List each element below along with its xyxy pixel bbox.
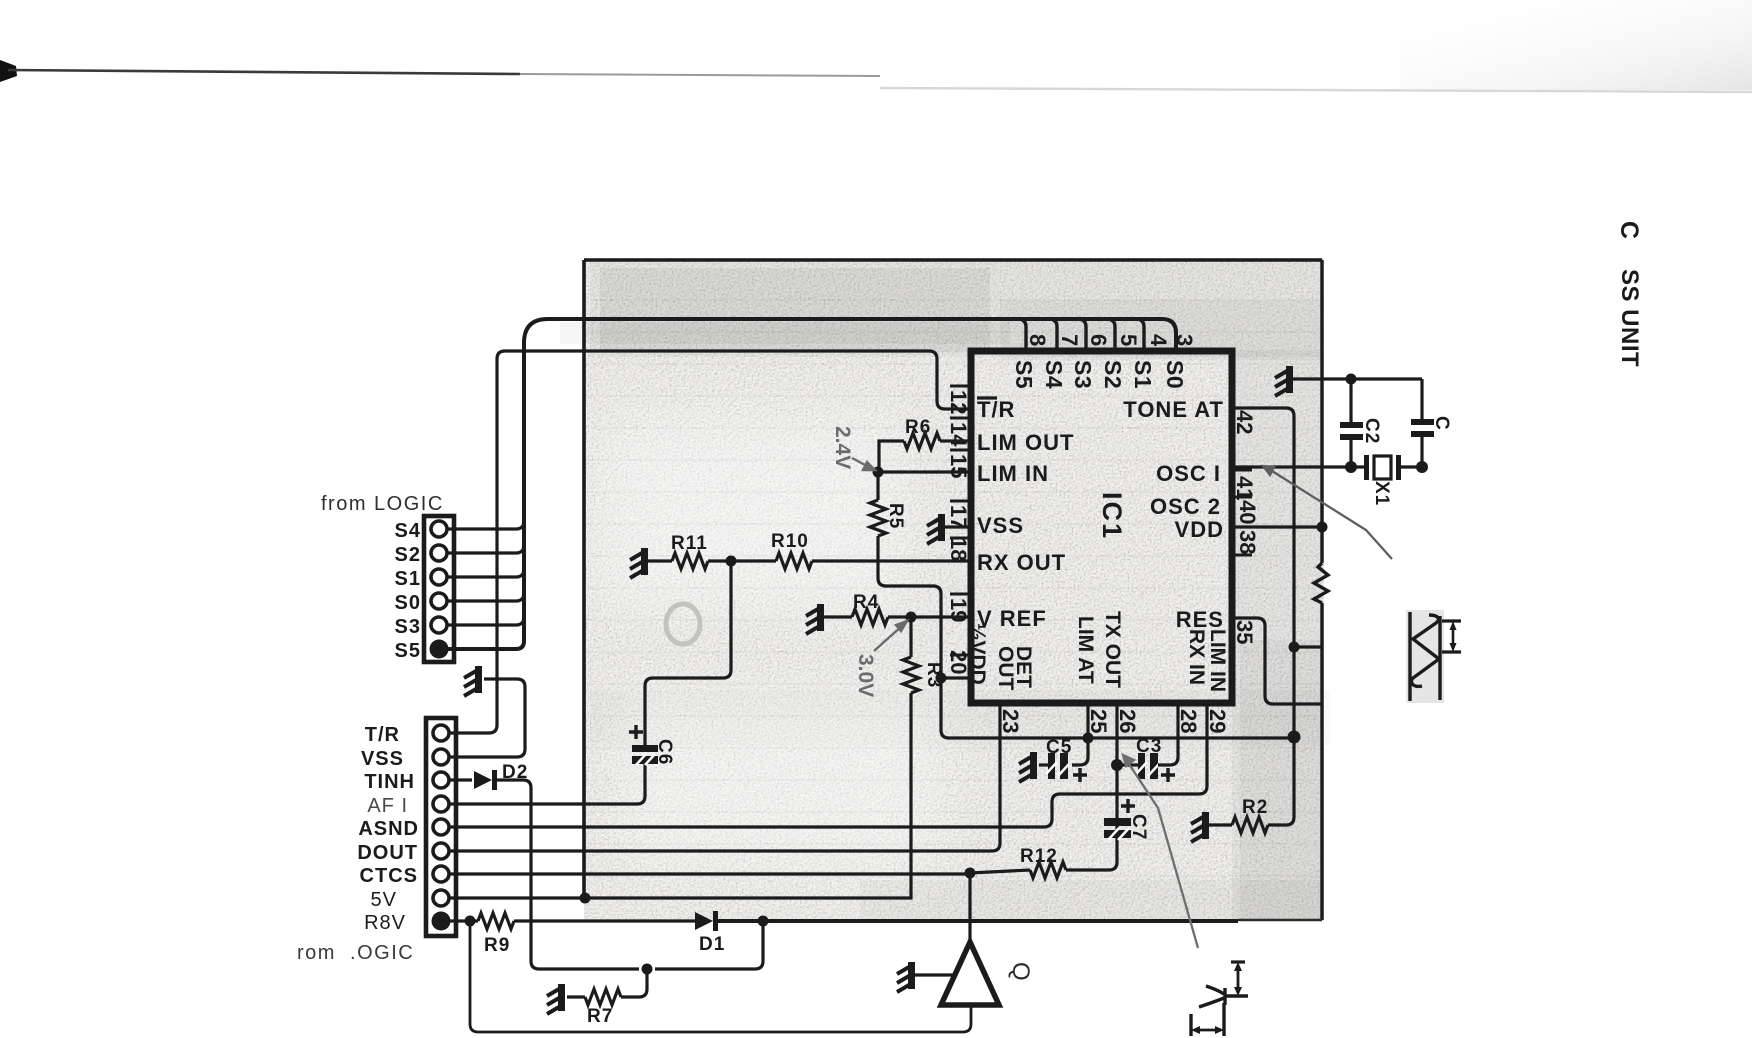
ground (R2) [1191,812,1209,842]
svg-text:VSS: VSS [977,513,1024,538]
wire: R8V node down and along bottom to Q output [470,921,971,1032]
svg-text:RX IN: RX IN [1185,629,1208,685]
pin S4 [431,521,447,537]
svg-text:R2: R2 [1242,797,1268,818]
pin S3 [431,617,447,633]
ground (R7) [547,984,565,1014]
svg-text:40: 40 [1235,500,1260,524]
ground (R11) [630,548,648,578]
wire: R5 bottom to half-VDD rail [878,536,1294,738]
svg-text:5V: 5V [371,889,397,911]
connector J2 [426,718,456,936]
capacitor C7 (electrolytic) [1104,799,1135,840]
svg-text:7: 7 [1057,334,1082,346]
wire: DOUT to IC pin 23 [449,705,1000,851]
pin 5V [433,890,449,906]
junction: half-VDD rail / right bus [1288,731,1301,744]
wire: C3 left lead [1117,763,1138,766]
svg-text:38: 38 [1235,530,1260,554]
svg-text:OUT: OUT [994,646,1017,691]
svg-text:TINH: TINH [364,771,415,793]
wire: board top edge [584,258,1322,262]
wire: 5V rail to R3 [449,693,911,898]
diode D1 [695,911,718,931]
wire: Q node down to apex [968,873,971,945]
left edge pin ticks [950,386,968,655]
wire: VDD pin 38 to right bus [1235,525,1322,528]
ground (VSS pin 17) [927,514,945,544]
wire: crystal top rail [1293,377,1422,380]
svg-text:4: 4 [1146,334,1171,347]
pin ASND [433,819,449,835]
wire: R8V stub [450,919,478,922]
svg-text:29: 29 [1205,709,1230,733]
wire: ASND to IC pin 29 [449,705,1207,827]
wire: IC pin 20 stub [940,676,968,679]
wire: R11 to node [708,559,731,562]
svg-text:5: 5 [1116,334,1141,346]
pin S1 [431,569,447,585]
wire: pin 8 comb drop [1018,319,1026,351]
svg-text:LIM IN: LIM IN [977,461,1049,486]
smudge band under bus [560,322,1010,344]
connector J1 (S lines) [424,516,454,662]
wire: R9 to D1 [514,919,695,922]
pin DOUT [433,843,449,859]
resistor R11 [672,553,708,569]
svg-text:28: 28 [1176,709,1201,733]
junction: V REF node (3.0V) [906,612,917,623]
svg-text:OSC I: OSC I [1156,461,1221,486]
svg-text:8: 8 [1025,334,1050,346]
wire: R6 to LIM IN node [879,441,904,471]
junction: 5V / board edge [580,893,591,904]
junction: VDD node [1317,522,1328,533]
capacitor C [1411,419,1434,437]
wire: TINH to D2 [449,778,472,781]
junction: R11/R10 node [726,556,737,567]
resistor (vertical, unlabeled) on right bus [1314,563,1328,603]
svg-text:25: 25 [1086,709,1111,733]
svg-text:19: 19 [946,598,971,622]
svg-text:SS UNIT: SS UNIT [1616,269,1643,367]
svg-text:2.4V: 2.4V [831,426,854,469]
svg-text:23: 23 [998,709,1023,733]
svg-text:R8V: R8V [364,912,406,934]
svg-text:R4: R4 [853,592,879,613]
svg-text:18: 18 [946,537,971,561]
svg-text:C5: C5 [1046,737,1072,758]
svg-text:DOUT: DOUT [357,842,418,864]
svg-text:12: 12 [946,390,971,414]
wire: ground to Q [915,973,957,976]
junction: D1 output [758,916,769,927]
svg-text:T/R: T/R [977,397,1015,422]
pin R8V (filled) [432,912,451,931]
svg-text:S1: S1 [1130,360,1156,389]
wire: pin 4 comb drop [1136,319,1144,351]
svg-text:R12: R12 [1020,846,1058,867]
wire: D2 to R7 node [497,780,639,969]
svg-text:S5: S5 [1011,360,1037,389]
junction: LIM IN node (2.4V) [873,467,884,478]
wire: VSS pin 17 stub [945,525,968,528]
wire: node to R10 [731,559,776,562]
wire: OSC1 pin 41 to crystal [1235,465,1364,468]
pencil smudge circle [666,604,700,644]
svg-text:AF I: AF I [367,795,408,817]
pointer TX OUT (leader line) [1123,755,1198,948]
wire: R11 left lead [648,559,672,562]
svg-text:R9: R9 [484,935,510,956]
svg-text:C3: C3 [1136,736,1162,757]
svg-text:C2: C2 [1361,418,1382,444]
svg-text:R7: R7 [587,1006,613,1027]
svg-text:S4: S4 [1041,360,1067,389]
pin AFI [433,796,449,812]
svg-text:T/R: T/R [365,724,400,746]
svg-text:S1: S1 [395,568,421,590]
wire: C3 to pin 28 [1158,705,1178,765]
svg-text:S2: S2 [395,544,421,566]
pointer 3.0V arrow [874,621,907,651]
resistor R10 [776,553,812,569]
wire: S1 merge [447,569,524,577]
wire: pin 7 comb drop [1049,319,1057,351]
svg-text:C7: C7 [1128,814,1149,840]
wire: R7 to ground [567,995,585,998]
svg-text:R10: R10 [771,531,809,552]
wire: S bus trunk (S5 row to IC pin 3) [447,319,1176,649]
svg-text:D1: D1 [699,934,725,955]
resistor R3 [903,657,919,693]
pointer 2.4V arrow [852,458,875,470]
junction: C2 top [1346,374,1357,385]
pin S0 [431,593,447,609]
wire: resistor bottom tap to node [1294,645,1322,648]
resistor R2 [1232,817,1268,833]
crystal X1 [1364,455,1401,480]
svg-text:VSS: VSS [361,748,404,770]
wire: T/R to IC pin 12 [449,351,968,733]
svg-text:from LOGIC: from LOGIC [321,493,444,515]
pin S5 (filled) [430,640,449,659]
svg-text:S0: S0 [395,592,421,614]
wire: R2 left lead [1209,823,1232,826]
scan artifact: top fold line [0,0,1752,92]
resistor R5 [870,500,886,536]
svg-text:TX OUT: TX OUT [1101,611,1124,688]
svg-text:CTCS: CTCS [360,865,418,887]
wire: LIM IN pin 15 [878,470,968,473]
wire: TONE AT pin 42 to right bus [1235,408,1294,736]
pin S2 [431,545,447,561]
wire: S2 merge [447,545,524,553]
label T/R (overline) [977,397,1015,422]
ground (C5) [1019,752,1037,782]
svg-text:S5: S5 [395,640,421,662]
wire: board bottom edge thin extension [1238,919,1322,921]
pin TINH [433,772,449,788]
wire: C bottom lead [1420,437,1423,467]
svg-text:LIM IN: LIM IN [1206,629,1229,692]
junction: pin 26 / C3 node [1111,759,1123,771]
svg-text:VDD: VDD [1175,517,1224,542]
board photocopy wash [584,258,1330,921]
IC IC1 body [971,351,1232,703]
svg-text:R3: R3 [923,662,944,688]
pin T/R [433,725,449,741]
amplitude arrow [1231,962,1245,996]
junction: pin 20 node [936,673,947,684]
wire: LIM OUT pin 14 [940,439,968,442]
svg-text:S3: S3 [395,616,421,638]
resistor R7 [585,989,621,1005]
svg-text:S3: S3 [1070,360,1096,389]
wire: D1 node down to R7 rail [655,921,763,969]
svg-text:C: C [1615,221,1643,239]
faint page ruling lines [584,300,1324,876]
svg-text:X1: X1 [1371,481,1392,506]
capacitor C3 (electrolytic) [1136,753,1175,782]
ground (Q input) [897,962,915,992]
capacitor C2 [1340,422,1363,440]
svg-text:Q: Q [1007,962,1034,981]
resistor R9 [478,913,514,929]
svg-text:26: 26 [1115,709,1140,733]
ground (crystal rail) [1275,366,1293,396]
wire: R12 to CTCS node [970,870,1030,873]
svg-text:35: 35 [1232,620,1257,644]
svg-text:15: 15 [946,454,971,478]
wire: pin 6 comb drop [1078,319,1086,351]
wire: R10 to IC pin 18 [812,559,968,562]
ground (R4) [806,604,824,634]
pin CTCS [433,866,449,882]
wire: RES pin 35 [1235,618,1322,704]
svg-text:OSC 2: OSC 2 [1150,494,1221,519]
wire: C2 top lead [1349,379,1352,422]
svg-text:R5: R5 [885,503,906,529]
wire: R4 left lead [824,615,852,618]
svg-text:C6: C6 [654,739,675,765]
wire: R3 top lead [909,617,912,657]
wire: S3 merge [447,617,524,625]
svg-text:42: 42 [1232,410,1257,434]
width bracket [1191,1003,1224,1036]
junction: C bottom [1416,461,1428,473]
svg-text:LIM OUT: LIM OUT [977,430,1074,455]
svg-text:½VDD: ½VDD [966,623,989,685]
capacitor C6 (electrolytic) [629,725,658,765]
wire: board left edge (down to 5V node) [582,260,586,899]
wire: R4 to IC pin 19 [888,615,968,618]
svg-text:LIM AT: LIM AT [1074,616,1097,684]
junction: resistor tap node [1289,642,1300,653]
wire: CTCS to R12 node [449,872,970,875]
svg-text:rom .OGIC: rom .OGIC [297,942,414,964]
wire: R5 top lead [876,472,879,500]
wire: S0 merge [447,593,524,601]
wire: C2 bottom lead [1349,440,1352,467]
pulse fork symbol [1199,986,1248,1007]
wire: VSS to ground [449,679,525,757]
resistor R6 [904,433,940,449]
svg-text:RX OUT: RX OUT [977,550,1066,575]
svg-text:S4: S4 [395,520,421,542]
capacitor C5 (electrolytic) [1046,753,1087,782]
transistor Q (triangle) [941,942,999,1005]
svg-text:R6: R6 [905,417,931,438]
junction: pin 25 / half-VDD rail [1083,733,1094,744]
wire: R7 riser [621,969,647,997]
svg-text:IC1: IC1 [1097,492,1127,540]
svg-text:C: C [1431,416,1452,431]
svg-text:S2: S2 [1100,360,1126,389]
junction: R8V node [465,916,476,927]
wire: C5 to ground [1039,763,1048,766]
wire: pin 25 stub to C5 [1072,705,1088,765]
resistor R12 [1030,862,1066,878]
wire: AFI to C6 [449,764,645,804]
svg-text:ASND: ASND [358,818,419,840]
wire: pin 5 comb drop [1107,319,1115,351]
wire: S4 merge [447,521,524,529]
svg-text:S0: S0 [1162,360,1188,389]
junction: CTCS/R12/Q node [965,868,976,879]
waveform sketch box [1406,610,1461,703]
wire: C right lead down [1420,379,1423,419]
svg-text:R11: R11 [671,533,708,554]
wire: right bus x=1322 lower section [1320,603,1323,920]
wire: right bus x=1322 upper section [1320,260,1323,563]
wire: crystal to C node [1401,465,1422,468]
wire: pin 26 stub down through C7 to R12 [1066,705,1117,870]
svg-text:3: 3 [1172,334,1197,346]
svg-text:6: 6 [1086,334,1111,346]
junction: C2 bottom [1345,461,1357,473]
wire: R2 to right node [1268,737,1294,825]
ground (VSS rail) [464,666,482,696]
svg-text:3.0V: 3.0V [854,654,877,697]
resistor R4 [852,609,888,625]
svg-text:14: 14 [946,422,971,447]
diode D2 [474,770,497,790]
wire: D1 to board lower rail [718,919,1238,923]
junction: R7 node [642,964,653,975]
right edge pin ticks [1235,470,1252,555]
svg-text:TONE AT: TONE AT [1123,397,1224,422]
pointer OSC1 (leader line) [1263,466,1392,559]
wire: C6 top to R11 node [645,561,731,745]
pin VSS [433,749,449,765]
